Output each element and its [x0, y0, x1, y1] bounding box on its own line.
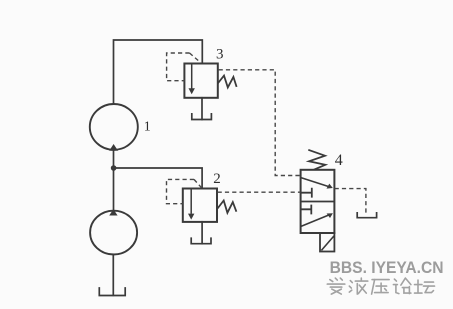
svg-text:1: 1: [144, 119, 151, 134]
svg-text:BBS. IYEYA.CN: BBS. IYEYA.CN: [330, 259, 444, 277]
svg-text:2: 2: [213, 171, 221, 187]
svg-text:4: 4: [335, 152, 343, 169]
svg-text:3: 3: [216, 46, 224, 62]
